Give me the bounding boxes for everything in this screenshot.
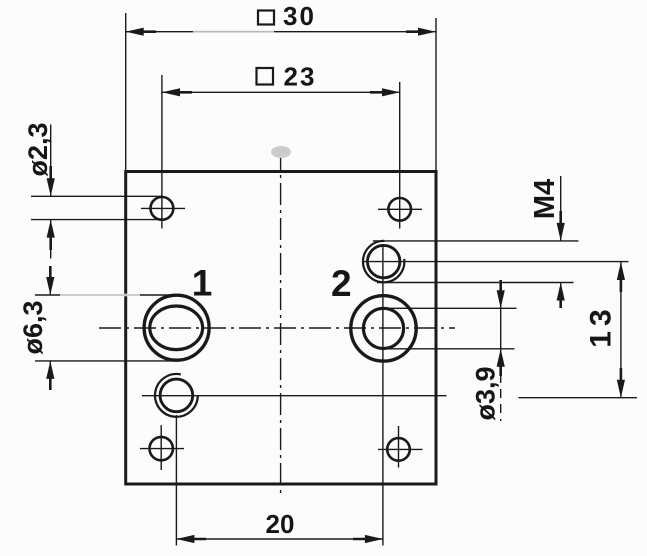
arrow o2,3 top (down) [47, 166, 55, 196]
arrow o3,9 top (down) [497, 280, 505, 308]
dimension 20: extension line left [175, 415, 177, 546]
svg-text:2: 2 [331, 263, 352, 304]
hole BR horizontal crosshair [378, 448, 423, 450]
horizontal centerline through ports 1 and 2 [99, 327, 455, 329]
svg-text:13: 13 [585, 304, 618, 347]
dimension 30: extension line right [435, 18, 437, 172]
o2,3 dimension line lower segment [50, 220, 52, 259]
M4 bottom tangent extension line [377, 282, 574, 284]
square symbol of dim 23 [257, 68, 274, 85]
M4 dimension line lower segment [560, 283, 562, 307]
o6,3 bottom tangent extension line [35, 360, 177, 362]
13 dimension line [620, 262, 622, 398]
dimension 20: dimension line [176, 538, 383, 540]
scan fade on o6,3 top tangent [60, 294, 140, 297]
arrow 13 bottom (down) [617, 368, 625, 398]
scan fade on 30 dimension line [193, 30, 274, 33]
hole BL vertical crosshair [160, 425, 162, 470]
arrow 13 top (up) [617, 262, 625, 292]
arrow dim20 right [353, 535, 383, 543]
svg-text:23: 23 [284, 61, 317, 91]
port 2 inner circle (o3,9) [363, 308, 403, 348]
o2,3 bottom tangent extension line [31, 219, 163, 221]
thread hole lower (M4) inner circle [160, 379, 193, 412]
o3,9 bottom tangent extension line [388, 348, 515, 350]
plate outline [126, 172, 436, 485]
hole BR (o2,3) [387, 438, 410, 461]
port 2 outer circle (o6,3) [351, 296, 416, 361]
hole BR vertical crosshair [398, 426, 400, 468]
thread hole upper (M4) inner circle [368, 245, 400, 277]
o2,3 top tangent extension line [31, 195, 163, 197]
svg-text:ø2,3: ø2,3 [23, 122, 53, 176]
dimension 30: extension line left [125, 13, 127, 172]
dimension 23: dimension line [162, 91, 400, 93]
arrow dim23 right [370, 88, 400, 96]
hole TL (o2,3) [151, 197, 174, 220]
thread hole upper outer arc [363, 241, 404, 282]
hole TL horizontal crosshair [141, 207, 185, 209]
thread lower horizontal centerline [142, 395, 447, 397]
M4 top tangent extension line [373, 240, 579, 242]
hole TR (o2,3) [388, 198, 411, 221]
thread upper horizontal centerline / 13 top reference line [362, 261, 629, 263]
arrow o6,3 bottom (up) [46, 361, 54, 390]
arrow M4 bottom (up) [557, 283, 565, 309]
arrow o6,3 top (down) [46, 266, 54, 295]
port 1 inner ellipse [150, 306, 203, 350]
arrow dim20 left [176, 535, 206, 543]
svg-text:20: 20 [266, 509, 295, 539]
o3,9 top tangent extension line [378, 307, 517, 309]
o3,9 dimension line dashed segment [500, 374, 502, 421]
thread hole lower outer arc [155, 374, 198, 417]
hole TL vertical crosshair / 23 extension line left [161, 75, 163, 229]
svg-text:ø6,3: ø6,3 [18, 300, 48, 354]
dimension 30: dimension line [126, 31, 436, 33]
13 bottom reference line [518, 397, 637, 399]
arrow M4 top (down) [557, 211, 565, 241]
hole BL horizontal crosshair [140, 448, 184, 450]
arrow o3,9 bottom (up) [497, 349, 505, 376]
svg-text:ø3,9: ø3,9 [471, 366, 501, 420]
svg-text:30: 30 [283, 1, 316, 31]
scan smudge above plate center [271, 146, 291, 158]
port 1 outer circle (o6,3) [144, 295, 209, 360]
o6,3 dimension line lower segment [49, 361, 51, 384]
o3,9 dimension line solid segment [500, 283, 502, 368]
svg-text:M4: M4 [529, 179, 561, 219]
svg-text:1: 1 [192, 263, 213, 304]
arrow o2,3 bottom (up) [47, 220, 55, 250]
arrow dim30 left [126, 28, 156, 36]
hole BL (o2,3) [150, 437, 173, 460]
vertical centerline of plate [280, 148, 282, 494]
o6,3 dimension line upper segment [49, 267, 51, 295]
hole TR horizontal crosshair [378, 208, 422, 210]
arrow dim23 left [162, 88, 192, 96]
M4 dimension line upper segment [560, 176, 562, 241]
arrow dim30 right [406, 28, 436, 36]
dimension 20: extension line right / port2 vertical centerline [382, 247, 384, 546]
o6,3 top tangent extension line [35, 294, 177, 296]
hole TR vertical crosshair / 23 extension line right [399, 82, 401, 229]
o2,3 dimension line upper segment [50, 125, 52, 197]
square symbol of dim 30 [258, 11, 274, 25]
